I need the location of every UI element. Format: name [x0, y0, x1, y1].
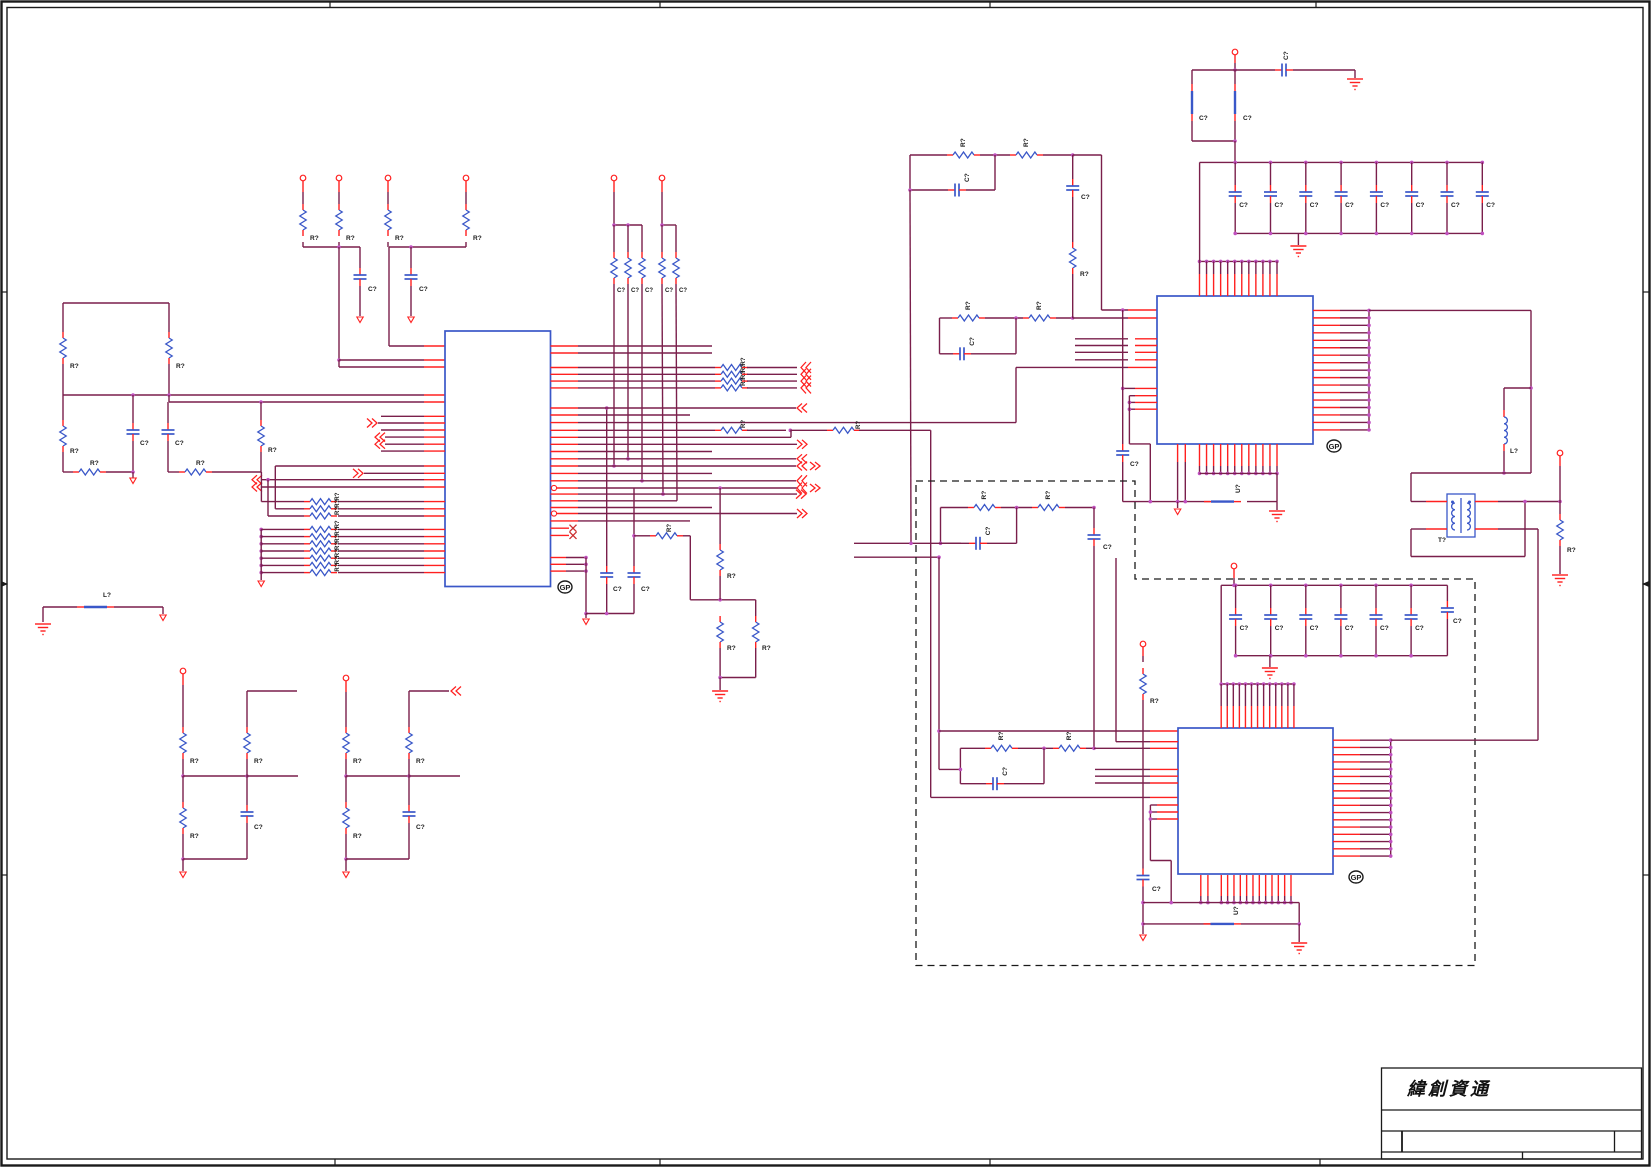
junction: [1445, 161, 1449, 165]
wire: [633, 488, 635, 566]
wire: [267, 480, 269, 516]
label GP: [1327, 440, 1341, 452]
junction: [1199, 901, 1203, 905]
capacitor: [1270, 185, 1272, 192]
wire: [578, 472, 712, 474]
resistor: [408, 727, 410, 733]
wire: [359, 286, 361, 316]
resistor: [1023, 317, 1029, 319]
connector arrow: [801, 382, 806, 393]
svg-text:R?: R?: [353, 833, 362, 840]
svg-text:R?: R?: [1023, 138, 1030, 147]
ground arrow: [160, 615, 166, 621]
wire: [1340, 332, 1369, 334]
wire: [634, 535, 650, 537]
ground: [712, 691, 728, 702]
ferrite bead: [1191, 84, 1193, 91]
wire: [1241, 923, 1299, 925]
junction: [1389, 847, 1393, 851]
wire: [613, 225, 615, 252]
resistor bank: [304, 543, 310, 545]
junction: [1389, 840, 1393, 844]
wire: [1446, 162, 1448, 185]
junction: [1226, 472, 1230, 476]
pin: [1475, 501, 1498, 503]
wire: [1340, 317, 1369, 319]
wire: [1340, 203, 1342, 233]
junction: [1212, 472, 1216, 476]
wire: [408, 776, 410, 805]
power terminal: [463, 175, 469, 181]
svg-text:C?: C?: [985, 527, 992, 536]
pin: [551, 414, 579, 416]
capacitor: [1340, 608, 1342, 615]
svg-text:R?: R?: [727, 645, 736, 652]
wire: [378, 422, 424, 424]
pin: [1269, 444, 1271, 466]
pin: [424, 557, 445, 559]
junction: [1304, 584, 1308, 588]
svg-text:C?: C?: [679, 288, 687, 294]
pin: [1275, 684, 1277, 706]
svg-text:C?: C?: [416, 824, 425, 831]
junction: [1233, 472, 1237, 476]
svg-text:R?: R?: [416, 758, 425, 765]
wire: [1481, 162, 1483, 185]
svg-text:R?: R?: [1080, 271, 1089, 278]
wire: [1360, 833, 1391, 835]
wire: [274, 466, 276, 509]
wire: [1559, 546, 1561, 574]
junction: [1481, 161, 1485, 165]
junction: [718, 486, 722, 490]
wire: [1043, 154, 1073, 156]
resistor: [345, 727, 347, 733]
wire: [408, 759, 410, 776]
pin: [1276, 261, 1278, 274]
pin: [1248, 261, 1250, 274]
wire: [1270, 626, 1272, 656]
pin: [1241, 444, 1243, 466]
junction: [1128, 401, 1132, 405]
wire: [338, 501, 424, 503]
svg-text:C?: C?: [969, 337, 976, 346]
junction: [1234, 654, 1238, 658]
wire row473: [364, 472, 424, 474]
svg-text:R?: R?: [1066, 732, 1073, 741]
wire: [719, 576, 721, 600]
wire: [338, 247, 340, 360]
connector arrow: [801, 362, 806, 373]
junction: [1374, 654, 1378, 658]
wire: [261, 557, 304, 559]
junction: [1274, 682, 1278, 686]
wire: [1142, 647, 1144, 656]
pin: [1313, 362, 1340, 364]
capacitor: [1305, 608, 1307, 615]
wire row487: [262, 486, 424, 488]
pin: [1150, 796, 1178, 798]
pin: [1290, 875, 1292, 896]
capacitor: [167, 423, 169, 430]
pin: [424, 429, 445, 431]
connector arrow: [372, 419, 377, 428]
pin: [424, 508, 445, 510]
pin: [424, 450, 445, 452]
wire: [1340, 421, 1369, 423]
pin: [1157, 811, 1178, 813]
pin: [1333, 826, 1360, 828]
wire: [578, 373, 715, 375]
pin: [1426, 528, 1447, 530]
wire: [1524, 502, 1526, 557]
capacitor: [948, 189, 955, 191]
pin: [424, 536, 445, 538]
wire: [1503, 444, 1505, 451]
wire: [345, 859, 347, 871]
svg-text:R?: R?: [196, 460, 205, 467]
pin: [1313, 399, 1340, 401]
wire: [1234, 55, 1236, 63]
pin: [1150, 768, 1178, 770]
wire: [1340, 392, 1369, 394]
wire row310: [1369, 309, 1531, 311]
wire: [168, 395, 170, 402]
wire: [578, 507, 712, 509]
junction: [626, 223, 630, 227]
no-connect: [570, 532, 577, 539]
wire: [1150, 860, 1171, 862]
wire: [346, 775, 409, 777]
pin: [1207, 875, 1209, 896]
resistor: [182, 727, 184, 733]
wire: [1129, 408, 1135, 410]
junction: [584, 612, 588, 616]
connector arrow: [375, 440, 380, 449]
wire: [261, 564, 304, 566]
power terminal: [1140, 641, 1146, 647]
junction: [245, 774, 249, 778]
junction: [1367, 376, 1371, 380]
wire: [980, 154, 1010, 156]
junction: [1269, 654, 1273, 658]
resistor R6: [179, 471, 185, 473]
wire: [261, 543, 304, 545]
connector arrow: [802, 509, 807, 518]
power terminal: [336, 175, 342, 181]
svg-text:C?: C?: [368, 286, 377, 293]
wire: [1411, 556, 1525, 558]
wire: [1375, 203, 1377, 233]
wire vert1531: [1530, 310, 1532, 473]
ground: [1291, 943, 1307, 954]
resistor R3: [62, 420, 64, 426]
pin: [1238, 684, 1240, 706]
wire: [381, 450, 424, 452]
junction: [1389, 796, 1393, 800]
svg-text:C?: C?: [645, 288, 653, 294]
junction: [1198, 472, 1202, 476]
svg-text:C?: C?: [1453, 618, 1462, 625]
pin: [1313, 429, 1340, 431]
wire RC: [960, 747, 985, 749]
pin: [1227, 444, 1229, 466]
wire row798: [931, 796, 1150, 798]
wire: [578, 513, 797, 515]
wire: [959, 748, 961, 783]
junction: [181, 774, 185, 778]
wire: [790, 430, 792, 437]
junction: [1247, 472, 1251, 476]
winding dots: [1451, 501, 1454, 504]
junction: [1275, 472, 1279, 476]
junction: [1071, 153, 1075, 157]
wire: [1360, 826, 1391, 828]
wire: [246, 776, 248, 805]
capacitor: [1446, 185, 1448, 192]
wire: [182, 759, 184, 776]
wire: [1235, 626, 1237, 656]
wire: [1234, 70, 1236, 84]
pin: [1313, 309, 1340, 311]
IC3 right bus: [1390, 740, 1392, 856]
wire: [1072, 155, 1074, 179]
capacitor: [1234, 185, 1236, 192]
connector arrow: [252, 475, 257, 484]
wire: [338, 564, 424, 566]
power terminal: [180, 668, 186, 674]
junction: [259, 549, 263, 553]
ground: [1262, 668, 1278, 679]
svg-text:GP: GP: [560, 583, 571, 592]
ground arrow: [132, 472, 134, 478]
resistor bank: [304, 557, 310, 559]
wire: [162, 607, 164, 614]
pin: [1251, 684, 1253, 706]
pin: [1426, 501, 1447, 503]
wire: [1191, 121, 1193, 141]
junction: [1280, 682, 1284, 686]
junction: [1261, 472, 1265, 476]
wire: [661, 181, 663, 192]
wire: [114, 606, 163, 608]
pin: [1333, 812, 1360, 814]
junction: [1389, 746, 1393, 750]
junction: [1367, 338, 1371, 342]
ground: [1290, 246, 1306, 257]
resistor bank: [304, 536, 310, 538]
pin: [1284, 875, 1286, 896]
wire: [1360, 855, 1391, 857]
junction: [1529, 386, 1533, 390]
wire cap bank2 rail bottom: [1236, 655, 1448, 657]
pin: [1333, 754, 1360, 756]
wire: [1270, 203, 1272, 233]
wire: [747, 429, 786, 431]
svg-text:C?: C?: [1345, 202, 1354, 209]
wire: [578, 414, 690, 416]
wire: [1122, 462, 1124, 502]
wire: [408, 691, 410, 727]
junction: [1367, 331, 1371, 335]
junction: [1367, 309, 1371, 313]
power terminal: [1232, 49, 1238, 55]
ferrite bead: [1204, 501, 1211, 503]
svg-text:C?: C?: [254, 824, 263, 831]
connector arrow: [815, 484, 820, 492]
junction: [1389, 854, 1393, 858]
pin: [424, 422, 445, 424]
wire: [62, 395, 64, 420]
svg-text:R?: R?: [268, 447, 277, 454]
pin: [1313, 407, 1340, 409]
pin: [1200, 875, 1202, 896]
wire: [1360, 812, 1391, 814]
capacitor: [1122, 444, 1124, 451]
junction: [1367, 398, 1371, 402]
wire: [1095, 782, 1150, 784]
junction: [1149, 817, 1153, 821]
junction: [1251, 901, 1255, 905]
junction: [1339, 654, 1343, 658]
pin: [1220, 684, 1222, 706]
svg-text:R?: R?: [190, 758, 199, 765]
svg-text:R?: R?: [335, 556, 341, 564]
wire: [183, 775, 247, 777]
wire: [63, 471, 73, 473]
svg-text:C?: C?: [1310, 202, 1319, 209]
wire long vert911: [910, 190, 911, 543]
ground arrow: [343, 872, 349, 878]
pin: [1128, 317, 1157, 319]
pin: [551, 458, 579, 460]
resistor: [755, 616, 757, 622]
IC2 right bus: [1368, 310, 1370, 430]
wire row480: [262, 479, 424, 481]
dashed boundary box: [916, 481, 1475, 966]
wire: [566, 557, 586, 559]
junction: [584, 563, 588, 567]
ground arrow: [357, 317, 363, 323]
wire: [338, 528, 424, 530]
svg-text:R?: R?: [741, 420, 747, 428]
wire rail C1: [303, 246, 360, 248]
wire: [1123, 387, 1135, 389]
svg-text:R?: R?: [335, 563, 341, 571]
pin: [1333, 797, 1360, 799]
wire: [585, 558, 587, 614]
wire: [1360, 797, 1391, 799]
junction: [1268, 260, 1272, 264]
wire: [1375, 585, 1377, 608]
wire: [389, 345, 424, 347]
wire: [1004, 783, 1044, 785]
wire: [338, 536, 424, 538]
junction: [1292, 682, 1296, 686]
pin: [1150, 730, 1178, 732]
wire: [345, 834, 347, 859]
svg-text:R?: R?: [335, 549, 341, 557]
wire: [261, 501, 304, 503]
wire cap bank rail bottom: [1235, 232, 1482, 234]
junction: [1389, 738, 1393, 742]
wire: [1340, 324, 1369, 326]
resistor: [719, 616, 721, 622]
resistor R15: [675, 252, 677, 258]
wire: [683, 535, 690, 537]
junction: [718, 598, 722, 602]
junction: [1558, 500, 1562, 504]
resistor R1: [62, 332, 64, 338]
junction: [632, 534, 636, 538]
junction: [909, 542, 913, 546]
wire: [606, 408, 608, 521]
junction: [1205, 472, 1209, 476]
wire: [1293, 69, 1355, 71]
ferrite bead: [1204, 923, 1211, 925]
pin: [551, 451, 579, 453]
pin: [551, 429, 579, 431]
wire: [168, 471, 179, 473]
pin: [424, 550, 445, 552]
svg-text:C?: C?: [631, 288, 639, 294]
wire: [1192, 140, 1235, 142]
wire: [1360, 739, 1391, 741]
junction: [1169, 901, 1173, 905]
wire: [909, 155, 911, 190]
wire: [1411, 501, 1426, 503]
ground: [1269, 511, 1285, 522]
wire: [338, 508, 424, 510]
wire: [385, 436, 424, 438]
junction: [1389, 760, 1393, 764]
resistor: [968, 507, 974, 509]
junction: [1092, 747, 1096, 751]
wire: [260, 472, 262, 502]
wire: [1270, 585, 1272, 608]
wire: [966, 189, 995, 191]
pin: [1239, 875, 1241, 896]
wire: [1375, 626, 1377, 656]
wire vert1094: [1093, 546, 1095, 748]
wire RC: [941, 507, 969, 509]
pin: [1333, 833, 1360, 835]
pin: [1135, 408, 1157, 410]
junction: [1262, 682, 1266, 686]
wire: [1340, 347, 1369, 349]
resistor R5: [73, 471, 79, 473]
wire: [1360, 746, 1391, 748]
junction: [1176, 500, 1180, 504]
pin: [424, 501, 445, 503]
junction: [1367, 413, 1371, 417]
ground: [1552, 575, 1568, 586]
junction: [1523, 500, 1527, 504]
pin: [1135, 345, 1157, 347]
svg-text:R?: R?: [190, 833, 199, 840]
svg-text:C?: C?: [1081, 194, 1090, 201]
capacitor: [1410, 608, 1412, 615]
wire: [338, 543, 424, 545]
wire: [1075, 351, 1128, 353]
wire: [1360, 761, 1391, 763]
junction: [939, 542, 943, 546]
connector arrow: [358, 469, 363, 478]
junction: [993, 153, 997, 157]
IC U2: [1157, 296, 1313, 444]
wire: [1234, 162, 1236, 185]
capacitor: [410, 268, 412, 275]
